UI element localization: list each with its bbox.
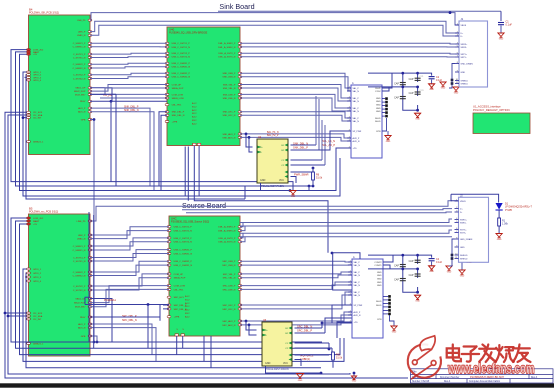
pin USB_C_SSTX2_N of U4C [167, 241, 171, 243]
svg-text:GPB: GPB [81, 336, 86, 338]
svg-text:VAL_N: VAL_N [354, 294, 361, 297]
pin C_SSTX1_N of B4 [88, 57, 92, 59]
wire to U6 D- [249, 325, 257, 335]
wire PELV drop [110, 101, 112, 181]
wire sSBU2 [90, 286, 169, 303]
svg-text:GND: GND [260, 179, 266, 182]
svg-text:GND: GND [441, 87, 446, 89]
svg-text:USB_C_SSTX2_N: USB_C_SSTX2_N [174, 242, 193, 244]
wire U2 sel rise [322, 120, 325, 165]
pin SNK_DBL_P of U40 [165, 111, 169, 113]
svg-text:GPIO_2: GPIO_2 [33, 75, 42, 77]
IC B5 (source left controller) [29, 214, 91, 356]
svg-text:SRC_LNE_N: SRC_LNE_N [223, 289, 236, 291]
pin C_SSTX2_N of B4 [88, 78, 92, 80]
svg-text:GPIO_4: GPIO_4 [33, 80, 42, 82]
pin LINK_P of B4 [88, 31, 92, 33]
pin GND of U3 [385, 104, 388, 107]
svg-text:GND: GND [376, 101, 381, 103]
pin GND of U3 [385, 97, 388, 100]
resistor R11 [332, 352, 335, 360]
capacitor [429, 77, 435, 79]
wire LINK_P to J1 D+ [90, 21, 459, 33]
junction U6 gnd [320, 372, 323, 375]
junction [401, 86, 404, 89]
wire U2 vcon [291, 172, 314, 183]
svg-text:DEBUG_1: DEBUG_1 [33, 343, 44, 345]
svg-text:SHLD: SHLD [375, 121, 381, 123]
pin USB_C_SSRX1_P of U40 [165, 62, 169, 64]
junction [416, 268, 419, 271]
pin DML_A_SSRX_P of U40 [238, 42, 242, 44]
svg-text:I2C_SDA: I2C_SDA [33, 114, 43, 117]
pin SRC_HV1 of U4C [167, 296, 171, 298]
svg-text:CAP: CAP [409, 274, 414, 277]
pin DML_A_SSRX_N of U40 [238, 46, 242, 48]
pin SBU2_FLIP of B4 [88, 90, 92, 92]
pin USB_C_SSTX2_P of U40 [165, 52, 169, 54]
svg-text:PWR_SBAR: PWR_SBAR [294, 172, 309, 176]
pin DEBUG_1 of B4 [27, 141, 31, 143]
wire sC_SSRX2_P [90, 261, 169, 272]
ground [391, 326, 397, 330]
svg-text:C_SSRX1_P: C_SSRX1_P [73, 43, 86, 45]
wire source loop B [16, 221, 330, 348]
svg-text:C_SSTX1_P: C_SSTX1_P [73, 257, 86, 259]
pin GND of U3 [385, 101, 388, 104]
svg-text:B3.2: B3.2 [185, 313, 190, 315]
svg-text:SRC_VBL_N: SRC_VBL_N [223, 278, 236, 280]
svg-text:USB_C_SSTX2_P: USB_C_SSTX2_P [174, 238, 193, 240]
wire cap rail 1 source [368, 254, 418, 256]
pin SNK_LRC_P of U40 [238, 111, 242, 113]
svg-text:FSUSB30_SQ_USB_Source 3/3(2): FSUSB30_SQ_USB_Source 3/3(2) [171, 221, 209, 224]
wire U5 to caps [383, 255, 393, 269]
wire AUX_P loop [90, 108, 150, 186]
svg-text:SNK_VBL_P: SNK_VBL_P [223, 84, 236, 86]
wire to C1 [500, 11, 502, 21]
svg-text:Sink Board: Sink Board [219, 2, 254, 11]
svg-text:I2C_SCK: I2C_SCK [33, 313, 43, 315]
pin C_SSRX2_P of B5 [88, 271, 92, 273]
wire sLRC_P to U5 [240, 292, 352, 305]
svg-text:SBU1_UP: SBU1_UP [75, 298, 86, 300]
svg-text:2: 2 [350, 310, 351, 312]
svg-text:PELV: PELV [80, 101, 86, 103]
pin USB_C_SSRX2_P of U4C [167, 260, 171, 262]
svg-text:DML_A_SSTX_N: DML_A_SSTX_N [218, 56, 235, 59]
wire LED to R1 [498, 210, 500, 218]
svg-text:VAL_P: VAL_P [354, 261, 361, 264]
pin GPIO_2 of B5 [27, 272, 31, 274]
svg-text:USB_C_SSRX1_N: USB_C_SSRX1_N [172, 67, 191, 69]
ground [351, 376, 356, 380]
IC U3 redriver (sink) [351, 85, 382, 158]
pin USB_C_SSTX1_N of U4C [167, 230, 171, 232]
pin SBUA_FLIP of U4C [167, 277, 171, 279]
pin SNK_VBL_N of U40 [238, 87, 242, 89]
svg-text:GND: GND [377, 282, 382, 284]
wire U5 outer loop [333, 253, 360, 290]
wire MUX_EN [90, 88, 167, 95]
svg-text:DML_A_SSRX_P: DML_A_SSRX_P [218, 226, 236, 229]
junction [401, 268, 404, 271]
svg-text:LOW_JU2: LOW_JU2 [33, 218, 44, 220]
svg-text:COM_UP: COM_UP [174, 274, 184, 276]
pins of U5 left side [348, 261, 352, 263]
svg-text:1: 1 [457, 23, 458, 25]
svg-text:2: 2 [349, 109, 350, 111]
wire U6 sel [295, 343, 333, 348]
svg-text:10: 10 [456, 79, 458, 81]
wire C2 gnd [431, 80, 433, 84]
wire U2 outputs rise [316, 96, 319, 150]
svg-text:C_SSTX2_N: C_SSTX2_N [73, 78, 86, 80]
svg-text:CAP: CAP [394, 278, 399, 281]
pin GND of U5 [388, 299, 391, 302]
junction [416, 86, 419, 89]
ground [385, 136, 391, 140]
svg-text:SNK_LNE_P: SNK_LNE_P [223, 94, 236, 96]
wire sAUX_N loop [90, 328, 156, 362]
wire GPB long vertical to source [90, 120, 94, 343]
pin USB_C_SSRX1_N of U4C [167, 253, 171, 255]
wire shield gnd source [449, 255, 452, 266]
pin USB_P5 of B4 [88, 19, 92, 21]
logo glyph you [513, 345, 530, 362]
pin C_SSRX2_N of B5 [88, 275, 92, 277]
wire J2 vbus stub [451, 194, 459, 201]
svg-text:C_SSRX2_P: C_SSRX2_P [73, 64, 86, 66]
svg-text:LINE_P5: LINE_P5 [77, 221, 87, 223]
pin SRC_LNE_N of U4C [238, 288, 242, 290]
pins of U3 left side [347, 87, 351, 89]
svg-text:D-: D- [461, 36, 464, 38]
wire sink loop D [23, 72, 340, 196]
wire sC_SSTX1_N [90, 254, 169, 262]
pin COM_UP of U40 [165, 84, 169, 86]
svg-text:VAL_N: VAL_N [354, 264, 361, 267]
svg-text:GPIO_2: GPIO_2 [33, 273, 42, 275]
logo elecfans stick figure [411, 336, 436, 379]
wire SRC_DBL stubs [90, 305, 169, 321]
svg-text:I2C_SDA: I2C_SDA [33, 315, 43, 318]
svg-text:5: 5 [457, 45, 458, 47]
wire SBU drops [112, 89, 116, 186]
svg-text:SHLD: SHLD [376, 301, 382, 303]
svg-text:LP DAKEHQ232+8R3L+T: LP DAKEHQ232+8R3L+T [505, 206, 532, 209]
svg-text:VAL_N: VAL_N [354, 274, 361, 277]
svg-text:C_SSRX2_N: C_SSRX2_N [73, 275, 86, 277]
pin VCON of U6 [289, 354, 292, 357]
wire AUX_N loop [90, 112, 154, 191]
wire sink loop B [16, 52, 314, 186]
pin C_SSRX1_P of B5 [88, 245, 92, 247]
svg-text:BAL_H1_N: BAL_H1_N [322, 139, 335, 143]
wire gnd drain [452, 64, 455, 81]
pin [451, 79, 454, 82]
wire to C4 [418, 255, 432, 258]
pin I2C_INT of B5 [27, 318, 31, 320]
wire R11 bottom [332, 360, 334, 368]
pin LOW_JU2 of B4 [27, 49, 31, 51]
svg-text:SBUB_LOW: SBUB_LOW [172, 98, 185, 100]
wire C3 [461, 255, 463, 270]
wire source loop E [26, 273, 321, 368]
pin SNK_LNE_N of U40 [238, 97, 242, 99]
wire left pin stubs [25, 77, 27, 80]
pin GND of U3 [385, 115, 388, 118]
svg-text:GND: GND [377, 278, 382, 280]
svg-text:2: 2 [350, 280, 351, 282]
svg-text:11: 11 [456, 82, 458, 84]
wire U6 outputs right [322, 318, 360, 333]
svg-text:2: 2 [350, 283, 351, 285]
wire SNK_VBL_N to U3 [240, 88, 351, 101]
wire SBU2_FLIP [90, 85, 167, 92]
svg-text:11: 11 [455, 257, 457, 259]
svg-text:A1.2: A1.2 [192, 102, 197, 105]
svg-text:SBUA_FLIP: SBUA_FLIP [172, 87, 184, 90]
junction [416, 291, 419, 294]
svg-text:SSRX+: SSRX+ [460, 219, 468, 221]
wire SNK_LRC_N to U3 [240, 115, 351, 121]
pin GND of U5 [388, 295, 391, 298]
title block table [411, 369, 554, 383]
wire sC_SSTX1_P [90, 250, 169, 258]
svg-text:GND: GND [415, 119, 420, 121]
svg-text:A1.2: A1.2 [185, 295, 190, 298]
wire s+PD [337, 322, 352, 338]
pin GPB of B4 [88, 119, 92, 121]
pin GND of U5 [388, 313, 391, 316]
wire C_SSRX2_P [90, 63, 167, 64]
wire cap col 1 source [403, 255, 418, 292]
svg-text:SBU2_FLIP: SBU2_FLIP [74, 91, 86, 93]
wire source loop C [20, 224, 341, 355]
pin +5V of B5 [27, 223, 31, 225]
wire sink loop C [20, 54, 337, 190]
capacitor [415, 260, 421, 262]
svg-text:B1.2: B1.2 [192, 106, 197, 108]
svg-text:USB_C_SSRX2_P: USB_C_SSRX2_P [174, 261, 193, 263]
svg-text:3: 3 [456, 210, 457, 212]
junction U2 gnd [289, 189, 292, 192]
junction GPB bottom [93, 341, 96, 344]
svg-text:SP_PWR: SP_PWR [354, 305, 363, 307]
wire C4 gnd [431, 262, 433, 266]
pin SBU1_UP of B5 [88, 298, 92, 300]
pin GND of U3 [385, 108, 388, 111]
ground [414, 295, 420, 299]
pin COM_LOW of U40 [165, 93, 169, 95]
svg-text:B1.2: B1.2 [185, 299, 190, 301]
svg-text:USB_P5: USB_P5 [77, 20, 86, 22]
ground [498, 33, 504, 37]
pin OE# of U6 [289, 347, 292, 350]
svg-text:1: 1 [456, 199, 457, 201]
pin D+ of U6 [263, 329, 266, 332]
wire POLDBA1 drop [147, 305, 149, 349]
svg-text:7-0BF(1): 7-0BF(1) [300, 357, 310, 361]
pin C_SSRX1_N of B4 [88, 46, 92, 48]
svg-text:BAL_AD_P: BAL_AD_P [322, 143, 335, 147]
pin SRC_DBL_P of U4C [167, 304, 171, 306]
svg-text:BTN: BTN [376, 131, 381, 133]
svg-text:GND: GND [377, 275, 382, 277]
svg-text:VAL_P: VAL_P [354, 271, 361, 274]
pin SBU2_FLIP of B5 [88, 302, 92, 304]
wire sSSRX- run [240, 225, 452, 227]
wire sVBL_N to U5 [240, 275, 352, 278]
capacitor [400, 279, 406, 281]
svg-text:DML_A_SSRX_N: DML_A_SSRX_N [218, 230, 236, 233]
svg-text:51.0k: 51.0k [336, 357, 343, 360]
LED D1 [496, 203, 503, 210]
svg-text:VBUS: VBUS [461, 25, 467, 27]
pin C_SSTX2_P of B4 [88, 74, 92, 76]
pin OUT1 of U6 [289, 327, 292, 330]
logo glyph dian [447, 345, 461, 362]
pin +5V of B4 [27, 53, 31, 55]
pin SRC_AUX_P of U4C [238, 320, 242, 322]
svg-text:2: 2 [349, 89, 350, 91]
wire sUSB_P to U5 [240, 260, 352, 263]
pin USB_C_SSTX2_N of U40 [165, 56, 169, 58]
pin +VPB of U40 [165, 121, 169, 123]
svg-text:CAP: CAP [409, 78, 414, 81]
IC B4 (sink left controller) [29, 15, 91, 155]
svg-text:SRC_AUX_P: SRC_AUX_P [222, 320, 236, 323]
logo elecfans watermark circle [408, 344, 441, 377]
svg-text:A4.2: A4.2 [185, 315, 190, 318]
wire cap col 2 source [417, 255, 419, 292]
svg-text:SRC_DBL_N: SRC_DBL_N [122, 319, 137, 322]
svg-text:C_SSTX2_N: C_SSTX2_N [73, 290, 86, 292]
svg-text:LINK_P: LINK_P [78, 32, 86, 34]
junction [416, 72, 419, 75]
pin SBU1_UP of B4 [88, 87, 92, 89]
pin USB1_N of B5 [88, 238, 92, 240]
svg-text:DML_A_SSTX_P: DML_A_SSTX_P [218, 237, 235, 240]
svg-text:2: 2 [350, 293, 351, 295]
wire left pin stubs source [25, 277, 27, 281]
pin SNK_AUX_N of U40 [238, 136, 242, 138]
svg-text:USB_C_SSTX1_N: USB_C_SSTX1_N [172, 47, 191, 49]
junction I2C left 2 [7, 315, 10, 318]
svg-text:2: 2 [349, 116, 350, 118]
svg-text:USB_C_SSRX1_P: USB_C_SSRX1_P [172, 63, 191, 65]
wire sSP_PWR [332, 305, 352, 323]
pin C_SSRX1_N of B5 [88, 249, 92, 251]
svg-text:GND: GND [376, 108, 381, 110]
svg-text:B2.2: B2.2 [192, 113, 197, 115]
ground [446, 266, 452, 270]
svg-text:CAP: CAP [409, 92, 414, 95]
wire sSSRX+ run [240, 219, 452, 223]
logo glyph zi [462, 346, 479, 361]
svg-text:U1_ACCESS_interlace: U1_ACCESS_interlace [473, 104, 501, 108]
pin DML_A_SSTX_N of U40 [238, 56, 242, 58]
wire loop E rise [244, 186, 246, 199]
pin I2C_INT of B4 [27, 117, 31, 119]
pin [451, 82, 454, 85]
wire SNK_DBL_N net [100, 97, 167, 99]
pin D- of U2 [258, 151, 261, 154]
svg-text:SNK_AUX_P: SNK_AUX_P [223, 133, 236, 136]
svg-text:1.00k: 1.00k [502, 223, 509, 226]
svg-text:SNK_LRC_N: SNK_LRC_N [223, 115, 236, 117]
svg-text:AUX_N: AUX_N [78, 327, 86, 330]
svg-text:SSTX+: SSTX+ [460, 229, 467, 231]
wire C1 to gnd [500, 26, 502, 34]
svg-text:Number: FS2-98: Number: FS2-98 [412, 380, 430, 383]
wire cap col 2 [417, 73, 419, 110]
svg-text:POLDBA1: POLDBA1 [104, 298, 117, 302]
IC option block (solid green) [473, 113, 530, 134]
svg-text:SRC_LNE_P: SRC_LNE_P [223, 286, 236, 288]
wire R6 bottom [312, 180, 314, 186]
wire U40 extra drops [185, 147, 188, 201]
pin [451, 257, 454, 260]
svg-text:GND: GND [429, 89, 434, 91]
junction POLDBA1 [147, 303, 150, 306]
svg-text:BTN: BTN [377, 319, 382, 321]
svg-text:GND: GND [376, 111, 381, 113]
wire I2C_INT stub [23, 117, 27, 119]
svg-text:SRC_DBL_P: SRC_DBL_P [297, 328, 312, 332]
svg-text:Rev A: Rev A [444, 380, 451, 383]
svg-text:USB_C_SSRX1_P: USB_C_SSRX1_P [174, 250, 193, 252]
IC U40 FUSB340 bridge (sink) [167, 27, 240, 146]
svg-text:C_SSRX2_N: C_SSRX2_N [73, 68, 86, 70]
wire SNK_VBL_P to U3 [240, 85, 351, 99]
svg-text:GPB: GPB [81, 119, 86, 121]
svg-text:SRC_AUX_N: SRC_AUX_N [222, 324, 236, 327]
ground [496, 234, 502, 238]
junction SNK_AUX_N [248, 136, 251, 139]
svg-text:SRC_USB_N: SRC_USB_N [222, 265, 236, 267]
pins of J2 [455, 200, 459, 202]
capacitor [400, 83, 406, 85]
pin PELV of B5 [88, 316, 92, 318]
svg-text:AUX_N: AUX_N [353, 140, 360, 143]
svg-text:GND: GND [392, 331, 397, 333]
wire DML_A_SSTX_P to J1 SSTX+ [240, 52, 455, 55]
junction loop [308, 185, 311, 188]
pin MART of B4 [27, 51, 31, 53]
svg-text:VBUS: VBUS [460, 201, 466, 203]
svg-text:PELV: PELV [80, 317, 86, 319]
wire SNK_AUX_P to U3 [240, 134, 351, 138]
wire cap col 1 [403, 73, 418, 110]
junction [401, 72, 404, 75]
pin MART of B5 [27, 220, 31, 222]
ground [290, 191, 296, 195]
svg-text:2: 2 [349, 119, 350, 121]
svg-text:CAP: CAP [394, 264, 399, 267]
pin DML_A_SSRX_N of U4C [238, 230, 242, 232]
wire I2C_SCK long left loop [5, 112, 408, 378]
svg-text:GND: GND [298, 380, 303, 382]
svg-text:+5V: +5V [33, 54, 37, 56]
logo elecfans url [447, 361, 534, 376]
pin USB_C_SSTX1_P of U40 [165, 42, 169, 44]
svg-text:GND: GND [429, 271, 434, 273]
wire I2C_SDA long left loop [8, 115, 350, 374]
svg-text:3: 3 [457, 34, 458, 36]
wire SBU1_UP [90, 88, 112, 102]
